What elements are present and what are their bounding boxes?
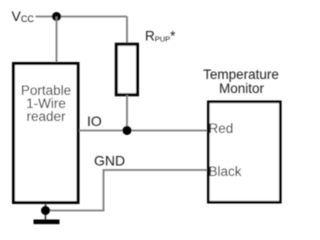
ground symbol [34, 220, 60, 225]
box U2: Temperature Monitor [208, 102, 280, 202]
wire: resistor bottom to IO line [126, 95, 128, 131]
junction dot: IO node [123, 126, 132, 135]
junction dot: GND node [41, 206, 50, 215]
wire: rail down to resistor top [126, 17, 128, 45]
svg-text:GND: GND [94, 153, 125, 169]
svg-text:Temperature: Temperature [203, 67, 279, 82]
wire: VCC down to reader box [56, 17, 58, 64]
svg-text:Black: Black [209, 164, 242, 179]
svg-text:Red: Red [209, 121, 234, 136]
resistor RPUP [116, 44, 137, 95]
svg-text:VCC: VCC [12, 8, 35, 24]
box U1: Portable 1-Wire reader [14, 64, 79, 203]
wire: GND line to ground [46, 170, 209, 211]
wire: VCC horizontal rail [36, 16, 128, 18]
wire: IO line [79, 130, 208, 132]
junction dot: VCC node [52, 12, 61, 21]
svg-text:IO: IO [87, 113, 102, 129]
svg-text:reader: reader [26, 109, 66, 124]
label: Temperature Monitor [203, 67, 279, 96]
svg-text:Monitor: Monitor [219, 81, 265, 96]
label: Portable 1-Wire reader [21, 83, 71, 124]
svg-text:RPUP*: RPUP* [145, 29, 176, 44]
wire: reader box bottom stub [45, 203, 47, 220]
